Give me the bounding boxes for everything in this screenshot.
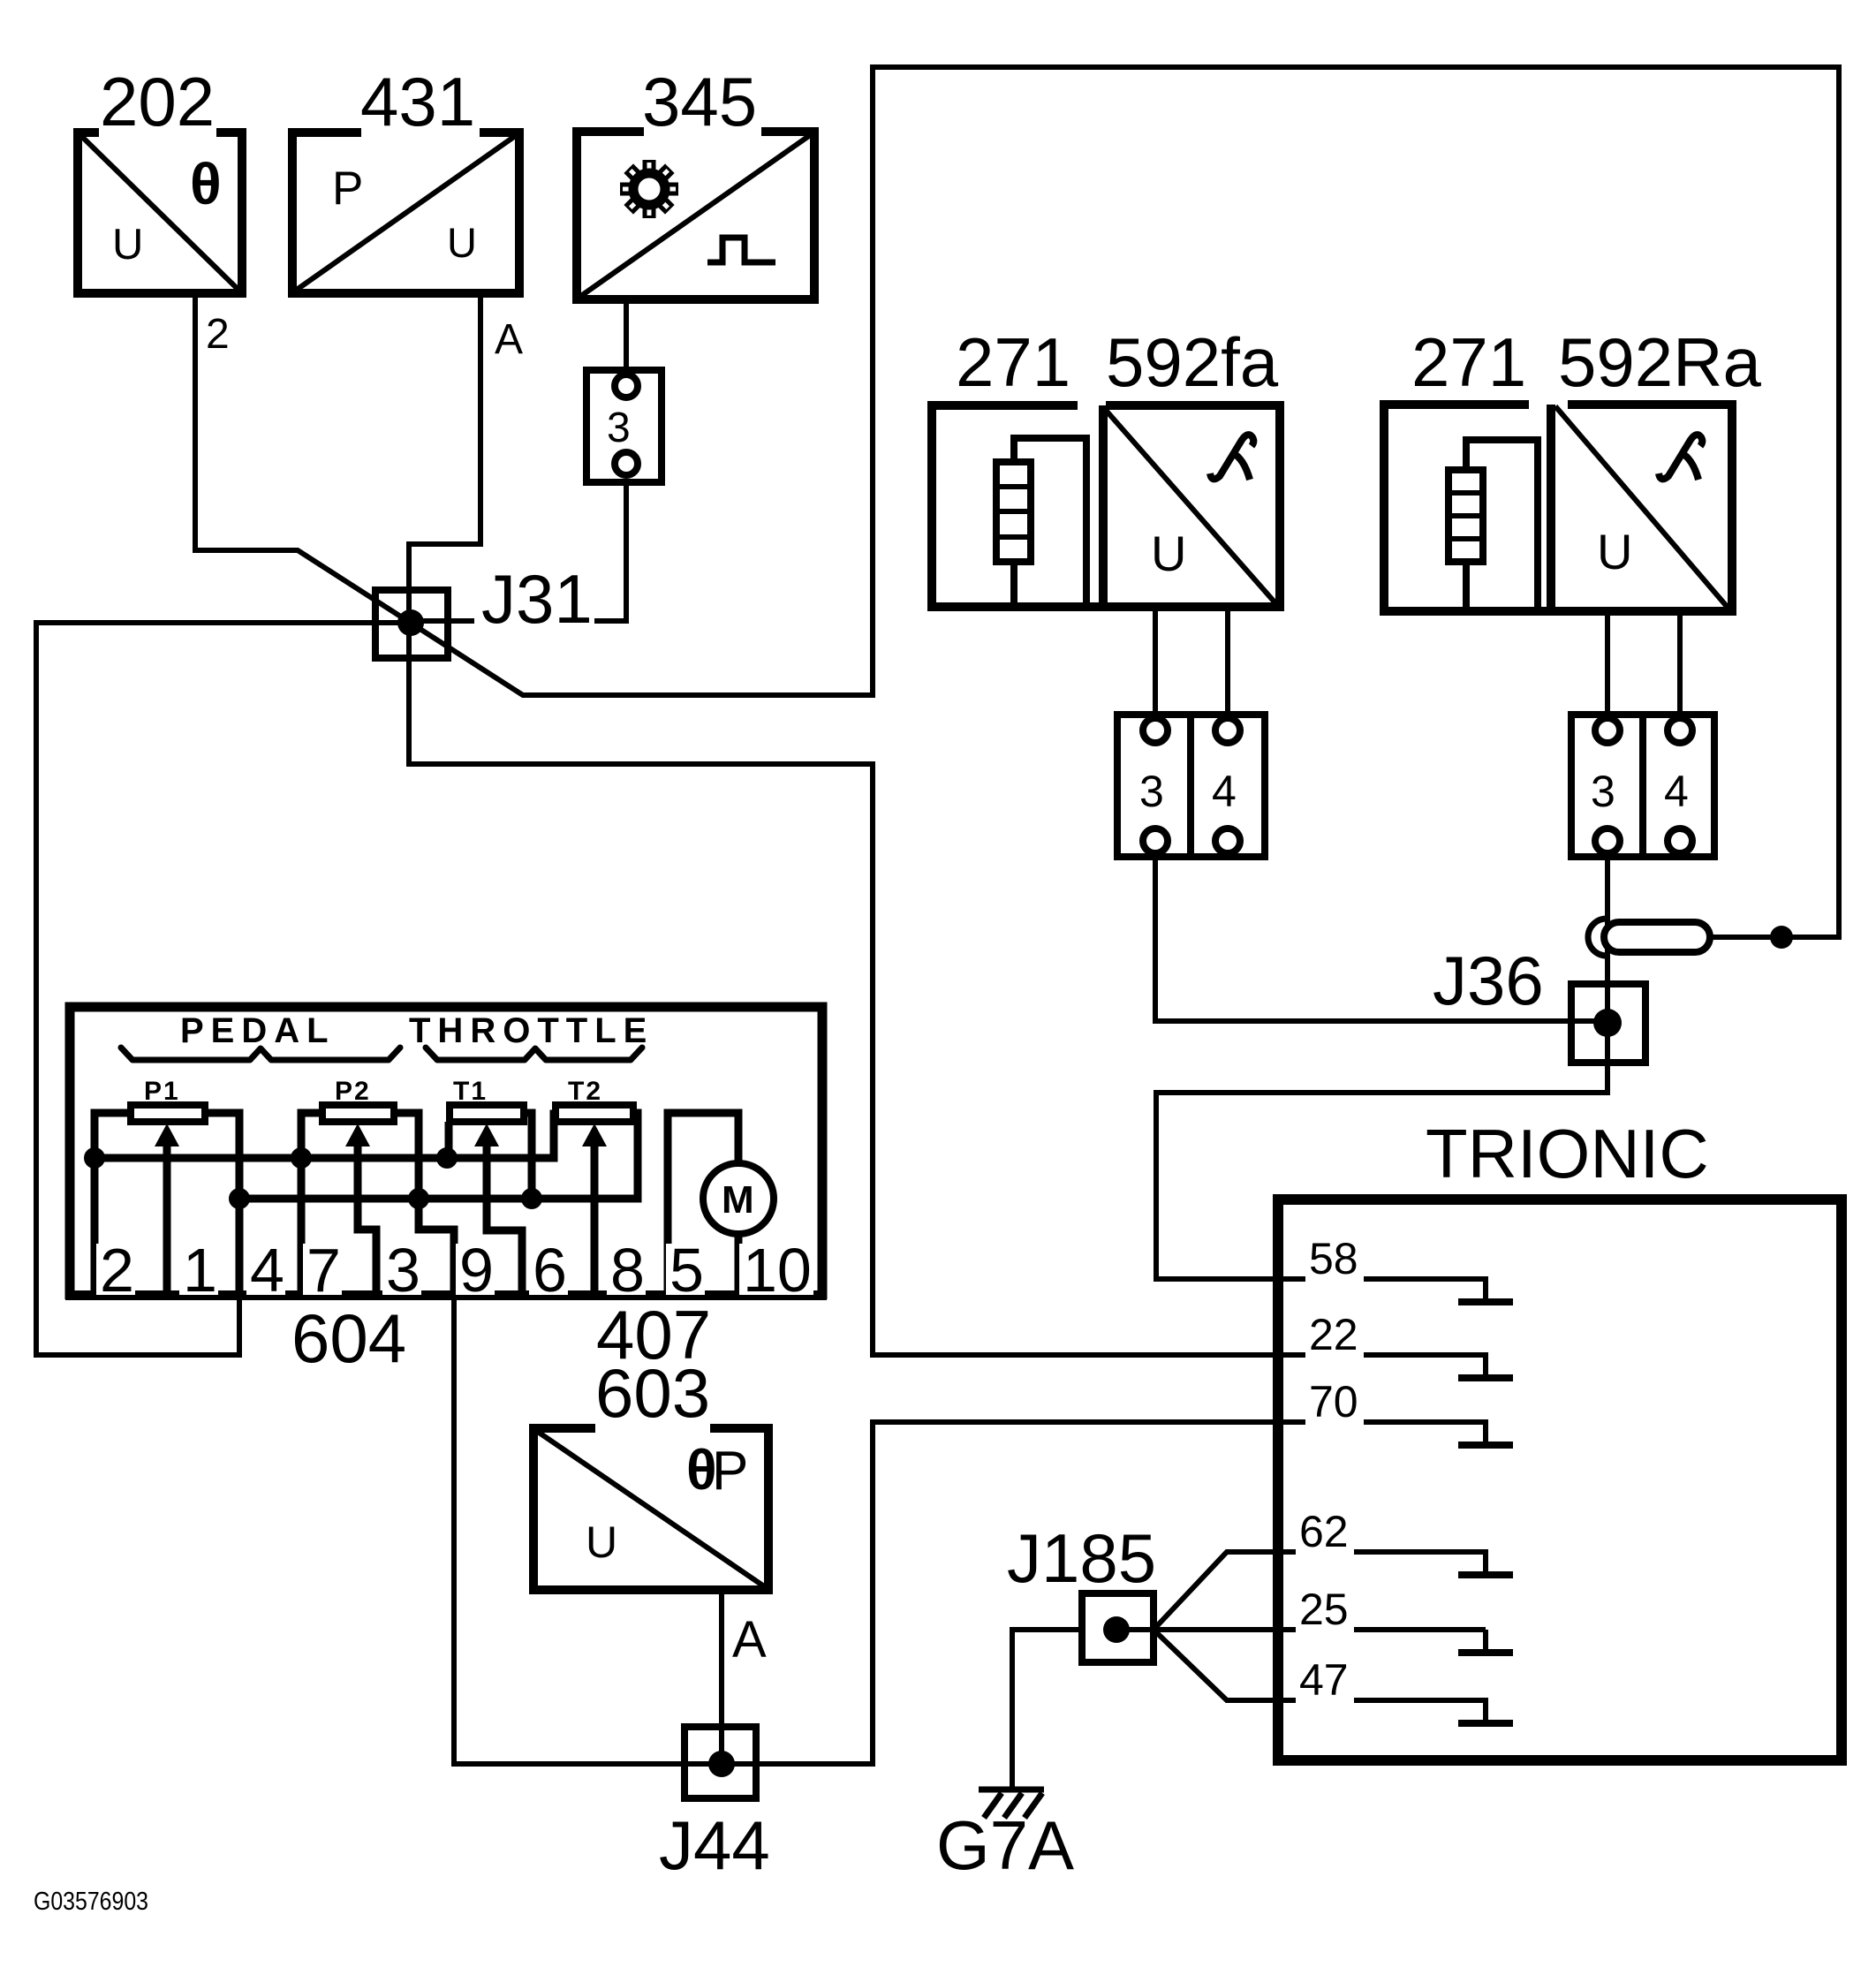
svg-text:9: 9 [459, 1236, 494, 1305]
svg-text:U: U [112, 221, 143, 269]
svg-text:4: 4 [1664, 767, 1689, 816]
svg-text:TRIONIC: TRIONIC [1426, 1115, 1709, 1192]
svg-text:58: 58 [1309, 1234, 1358, 1283]
svg-text:U: U [1597, 524, 1632, 579]
svg-text:271: 271 [1411, 323, 1526, 401]
svg-text:U: U [1151, 526, 1186, 581]
svg-text:G03576903: G03576903 [34, 1888, 148, 1916]
svg-text:1: 1 [183, 1236, 217, 1305]
svg-text:8: 8 [610, 1236, 645, 1305]
svg-text:P: P [712, 1441, 748, 1502]
svg-text:592fa: 592fa [1106, 323, 1279, 401]
svg-text:P2: P2 [335, 1077, 371, 1106]
svg-text:U: U [447, 219, 477, 266]
svg-text:47: 47 [1299, 1655, 1349, 1705]
svg-text:25: 25 [1299, 1585, 1349, 1634]
svg-text:5: 5 [669, 1236, 704, 1305]
svg-text:2: 2 [206, 311, 230, 358]
svg-text:4: 4 [250, 1236, 284, 1305]
svg-text:603: 603 [595, 1354, 710, 1432]
svg-text:A: A [495, 316, 523, 363]
svg-text:3: 3 [607, 405, 631, 451]
svg-text:62: 62 [1299, 1507, 1349, 1556]
svg-text:271: 271 [956, 323, 1070, 401]
svg-text:U: U [586, 1517, 617, 1567]
svg-text:T2: T2 [568, 1077, 602, 1106]
svg-text:θ: θ [190, 151, 222, 216]
svg-text:M: M [722, 1178, 754, 1222]
svg-text:3: 3 [386, 1236, 420, 1305]
svg-text:592Ra: 592Ra [1558, 323, 1761, 401]
svg-text:T1: T1 [453, 1077, 488, 1106]
svg-text:J36: J36 [1433, 942, 1544, 1019]
svg-text:A: A [732, 1611, 767, 1669]
svg-text:THROTTLE: THROTTLE [409, 1011, 654, 1050]
svg-text:202: 202 [100, 63, 215, 140]
svg-text:604: 604 [291, 1299, 406, 1377]
svg-text:2: 2 [100, 1236, 134, 1305]
svg-text:7: 7 [306, 1236, 341, 1305]
svg-text:G7A: G7A [936, 1806, 1074, 1884]
svg-text:P: P [332, 163, 363, 215]
svg-text:P1: P1 [144, 1077, 180, 1106]
svg-text:PEDAL: PEDAL [180, 1011, 336, 1050]
svg-text:431: 431 [360, 63, 475, 140]
svg-text:6: 6 [533, 1236, 567, 1305]
svg-text:3: 3 [1591, 767, 1615, 816]
svg-text:J44: J44 [659, 1806, 770, 1884]
svg-text:10: 10 [743, 1236, 812, 1305]
svg-text:J31: J31 [481, 560, 593, 638]
svg-text:70: 70 [1309, 1377, 1358, 1426]
svg-text:4: 4 [1212, 767, 1237, 816]
svg-text:3: 3 [1139, 767, 1164, 816]
svg-text:22: 22 [1309, 1310, 1358, 1359]
svg-text:345: 345 [642, 63, 757, 140]
svg-text:J185: J185 [1007, 1519, 1156, 1597]
